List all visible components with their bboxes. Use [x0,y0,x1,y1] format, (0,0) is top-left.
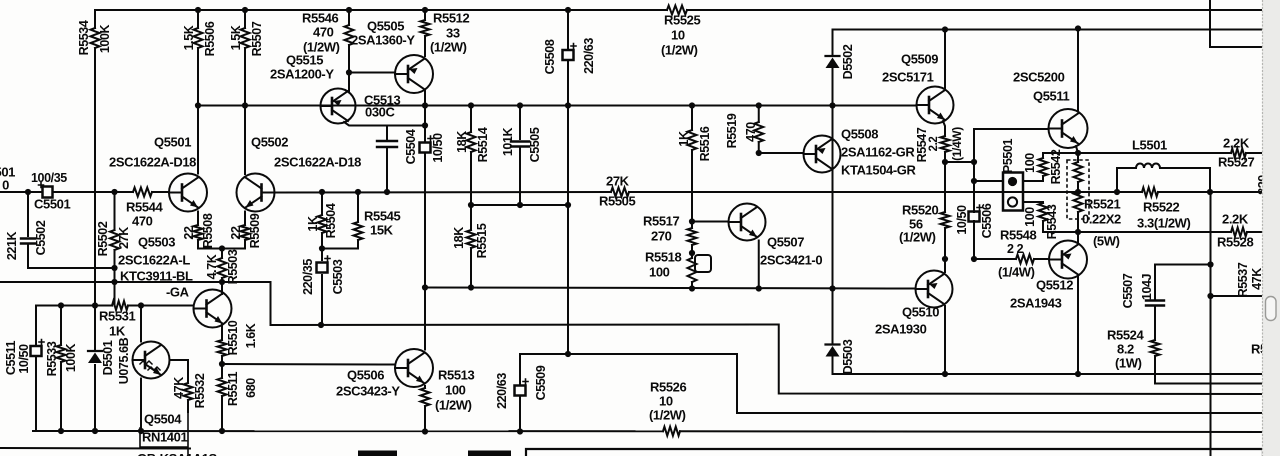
junction (692,221.5) [689,218,695,224]
wire R5542 branch x=1043 [1042,153,1044,158]
svg-text:Q5502: Q5502 [251,134,288,149]
junction (945,29.5) [942,26,948,32]
junction (1078,232) [1075,229,1081,235]
wire C5502 branch x=28 [27,192,29,236]
resistor R5511 [218,378,227,396]
junction (349,72.5) [346,69,352,75]
resistor R5512 [421,20,430,36]
resistor R5545 [354,222,363,240]
svg-text:R5547: R5547 [915,127,929,162]
svg-text:R5510: R5510 [226,320,240,355]
wire C5511 branch x=36 [35,306,37,347]
svg-text:R5504: R5504 [324,203,338,238]
svg-text:2SA1943: 2SA1943 [1010,295,1062,310]
svg-text:C5511: C5511 [4,340,18,375]
svg-text:1K: 1K [109,323,126,338]
svg-text:8.2: 8.2 [1117,341,1134,356]
svg-text:R5528: R5528 [1217,234,1253,249]
svg-text:221K: 221K [5,231,19,260]
svg-text:R5522: R5522 [1143,199,1179,214]
junction (1117,192) [1114,189,1120,195]
wire Q5507 emitter x=758.75 [758,241,760,289]
wire Q5510 emitter [944,306,946,374]
junction (358,192) [355,189,361,195]
transistor Q5510 [916,271,953,308]
svg-text:2SC5200: 2SC5200 [1013,69,1065,84]
junction (322,192) [319,189,325,195]
capacitor C5501 (electrolytic, inline) [43,187,53,198]
junction (1078,374) [1075,371,1081,377]
junction (61,431) [58,428,64,434]
svg-text:R5503: R5503 [226,249,240,284]
wire cap C5513 branch x=387 [386,126,388,140]
scrollbar gutter [1262,0,1280,456]
svg-text:R5506: R5506 [203,21,217,56]
junction (945,259) [942,256,948,262]
wire C5509 branch x=520 [519,354,521,384]
svg-text:10/50: 10/50 [17,344,31,374]
svg-text:R5533: R5533 [45,341,59,376]
wire R5519 branch x=758.75 [758,106,760,123]
wire vertical x=198 (Q5501 collector branch) [197,10,199,28]
wire vertical x=974 with C5506 [973,129,975,212]
svg-text:104J: 104J [1140,273,1154,300]
svg-text:R5517: R5517 [643,213,679,228]
junction (245,10) [242,7,248,13]
svg-text:(1/4W): (1/4W) [998,264,1035,279]
transistor Q5509 [917,87,954,124]
junction (568,105.5) [565,102,571,108]
svg-text:2.2K: 2.2K [1222,211,1249,226]
resistor R5521 (0.22x2) with dashed box [1067,160,1089,219]
zener diode D5501 [88,350,102,352]
wire y=232 line with R5528 [1043,231,1231,233]
wire R5532 down [187,400,189,412]
svg-text:2SC3423-Y: 2SC3423-Y [336,383,400,398]
svg-text:GB-KSA1A1S: GB-KSA1A1S [137,451,218,456]
svg-text:-GA: -GA [166,284,190,299]
svg-text:R5525: R5525 [664,12,700,27]
svg-text:R5508: R5508 [201,213,215,248]
junction (692,253) [689,250,695,256]
wire vertical x=1210.5 (output node) [1210,192,1212,456]
junction (568,10) [565,7,571,13]
svg-text:R5545: R5545 [364,208,400,223]
wire Q5511 emitter to y=153 [1076,146,1078,153]
junction (520,431.5) [517,428,523,434]
svg-text:Q5504: Q5504 [144,411,182,426]
resistor R5513 [421,388,430,406]
svg-text:1K: 1K [306,216,320,232]
svg-text:C5506: C5506 [980,203,994,238]
junction (1078,153) [1075,150,1081,156]
svg-text:R5514: R5514 [476,127,490,162]
junction (425,431.5) [422,428,428,434]
junction (61,305.5) [58,302,64,308]
wire y=29.5 rail [833,29,1264,31]
resistor R5524 [1151,340,1160,356]
svg-text:(1/4W): (1/4W) [950,127,964,161]
junction (222,282) [219,279,225,285]
svg-text:R5548: R5548 [1000,227,1036,242]
svg-text:Q5510: Q5510 [902,304,939,319]
junction (471,105.5) [468,102,474,108]
svg-text:C5509: C5509 [534,365,548,400]
svg-text:0.22X2: 0.22X2 [1082,211,1121,226]
resistor R5520 [941,212,950,228]
junction (425,287.5) [422,284,428,290]
junction (471,287.5) [468,284,474,290]
wire Q5509 collector x=945 [944,30,946,89]
svg-text:10: 10 [659,393,673,408]
svg-text:100: 100 [1023,207,1037,227]
scrollbar thumb [1266,297,1277,321]
svg-text:R5511: R5511 [226,371,240,406]
svg-text:R5520: R5520 [902,202,938,217]
junction (114.5,268) [111,265,117,271]
resistor R5525 (inline on top rail) [667,6,687,15]
svg-text:R5502: R5502 [96,221,110,256]
resistor R5502 [110,230,119,250]
svg-text:0: 0 [2,177,9,192]
svg-text:100: 100 [445,382,466,397]
svg-text:(1/2W): (1/2W) [661,42,698,57]
svg-text:100: 100 [649,264,670,279]
svg-text:2SC5171: 2SC5171 [882,69,934,84]
wire y=268 to x=114.5 [28,267,115,269]
wire Q5511 collector x=1078 [1077,29,1079,111]
bus y=287.5 to Q5510 [425,288,916,289]
svg-text:R5546: R5546 [302,10,338,25]
resistor R5507 [241,28,250,48]
svg-text:C5501: C5501 [34,196,70,211]
resistor R5504 [318,215,327,233]
svg-text:2 2: 2 2 [1007,242,1024,256]
svg-text:47K: 47K [172,377,186,399]
svg-text:C5504: C5504 [404,129,418,164]
junction (141,305.5) [138,302,144,308]
capacitor C5506 [969,212,980,222]
svg-text:1.5K: 1.5K [182,25,196,50]
main signal line y=192 [0,191,42,193]
svg-text:C5508: C5508 [543,39,557,74]
transistor Q5512 [1049,241,1087,279]
wire bottom line y=448 left [0,447,190,450]
junction (520,105.5) [517,102,523,108]
junction (322,248.5) [319,245,325,251]
junction (945,374) [942,371,948,377]
wire vertical x=349 (R5546 branch) [348,10,350,25]
wire R5516 branch x=692 [691,106,693,131]
junction (568,354) [565,351,571,357]
svg-text:2SC3421-0: 2SC3421-0 [760,252,822,267]
svg-text:(1/2W): (1/2W) [649,407,686,422]
svg-text:D5501: D5501 [101,340,115,375]
svg-text:C5507: C5507 [1121,273,1135,308]
wire base rail y=105.5 to Q5509 [198,105,916,107]
svg-text:C5503: C5503 [331,259,345,294]
junction (692,105.5) [689,102,695,108]
transistor Q5507 [729,204,766,241]
resistor R5547 [941,136,950,152]
svg-text:R5526: R5526 [650,379,686,394]
junction (568,205) [565,202,571,208]
junction (198,105.5) [195,102,201,108]
svg-text:10/50: 10/50 [955,205,969,235]
capacitor C5509 [515,386,526,396]
resistor R5517 [688,228,697,245]
capacitor C5513 [377,141,397,147]
junction (222,364) [219,361,225,367]
ground/output bus y=431 bottom [33,430,663,432]
resistor R5548 [1016,255,1034,264]
resistor R5522 (inline on main line) [1142,188,1158,197]
junction (198,10) [195,7,201,13]
junction (141,431) [138,428,144,434]
capacitor C5507 [1146,301,1164,306]
junction (95,431) [92,428,98,434]
svg-text:Q5515: Q5515 [286,52,323,67]
wire vertical x=832.5 with diodes [832,30,834,56]
transistor Q5502 [237,174,275,212]
svg-text:KTC3911-BL: KTC3911-BL [120,268,193,283]
svg-text:U075.6B: U075.6B [117,337,131,384]
wire Q5505 base line y=72.5 [349,72,395,74]
svg-text:101K: 101K [501,127,515,156]
wire vertical x=471 (R5514/R5515 branch) [470,106,472,133]
svg-text:470: 470 [744,122,758,142]
resistor R5542 [1039,158,1048,176]
wire R5533 branch x=61 [60,306,62,346]
wire y=374 line [833,373,1264,375]
svg-text:R5542: R5542 [1049,149,1063,184]
svg-text:2.2K: 2.2K [1223,135,1250,150]
junction (832.5,288.5) [829,285,835,291]
wire output line y=153 right [1043,152,1231,154]
svg-text:KTA1504-GR: KTA1504-GR [841,162,917,177]
transistor Q5506 [395,349,433,387]
capacitor C5508 [563,50,574,60]
wire y=354 step line [520,354,1263,413]
wire Q5515 emitter to x=425 y=125.5 [344,122,425,126]
wire R5548 line y=259 [974,258,1016,260]
wire vertical x=425 upper (Q5505 collector) [424,10,426,20]
resistor R5534 [91,28,100,48]
svg-text:(1/2W): (1/2W) [435,397,472,412]
connector P5501 [1003,173,1023,211]
svg-text:R5512: R5512 [433,10,469,25]
wire Q5511 base y=129 [974,128,1049,130]
capacitor C5503 (electrolytic) [317,263,328,273]
svg-text:R5519: R5519 [725,113,739,148]
junction (832.5,105.5) [829,102,835,108]
junction (114.5,192) [111,189,117,195]
svg-text:18K: 18K [452,227,466,249]
wire top-right corner x=1210 [1210,0,1263,47]
junction (1078,192) [1075,189,1081,195]
svg-text:27K: 27K [117,227,131,249]
junction (974,162) [971,159,977,165]
svg-text:R5516: R5516 [698,126,712,161]
svg-text:2SA1360-Y: 2SA1360-Y [351,32,415,47]
svg-text:3.3(1/2W): 3.3(1/2W) [1137,215,1191,230]
resistor R5509 [241,225,250,240]
Q5504 label box [140,412,188,456]
junction (425,10) [422,7,428,13]
junction (425,105.5) [422,102,428,108]
wire Q5504 emitter [140,379,142,432]
svg-text:R5527: R5527 [1218,154,1254,169]
junction (1210.5,264.5) [1207,261,1213,267]
svg-text:R5532: R5532 [193,373,207,408]
junction (1210,192) [1207,189,1213,195]
svg-text:470: 470 [313,24,334,39]
junction (945,162) [942,159,948,165]
svg-text:Q5506: Q5506 [347,367,384,382]
junction (425,125.5) [422,122,428,128]
wire C5507/R5524 branch x=1155 [1154,265,1156,300]
wire Q5504 base to R5532 [170,360,189,383]
transistor Q5511 [1049,109,1088,148]
svg-text:220/35: 220/35 [301,259,315,295]
svg-text:R5543: R5543 [1045,204,1059,239]
junction (974,181) [971,178,977,184]
svg-text:R5515: R5515 [475,223,489,258]
transistor Q5508 [804,136,841,173]
transistor Q5504 (RN1401 digital) [133,342,170,379]
svg-text:4.7K: 4.7K [205,254,219,279]
junction (387,192) [384,189,390,195]
svg-text:R5537: R5537 [1236,262,1250,297]
svg-text:Q5512: Q5512 [1036,277,1073,292]
resistor R5519 [754,122,763,142]
diode D5503 [826,343,840,345]
svg-text:470: 470 [132,213,153,228]
svg-text:100/35: 100/35 [31,171,67,185]
junction (28,192) [25,189,31,195]
svg-text:2SC1622A-D18: 2SC1622A-D18 [274,154,361,169]
svg-text:Q5505: Q5505 [367,18,404,33]
wire R5504 branch x=322 [321,192,323,215]
wire vertical x=95 from rail to lower nets [94,10,96,28]
wire Q5503 emitter chain x=222 [221,324,223,340]
main line 2 y=282 and step [0,282,1263,394]
svg-text:R5524: R5524 [1107,327,1144,342]
junction (95,305.5) [92,302,98,308]
svg-text:15K: 15K [370,222,394,237]
svg-text:(1/2W): (1/2W) [899,229,936,244]
resistor R5527 (inline) [1231,149,1246,158]
junction (692,288.5) [689,285,695,291]
wire Q5507 base y=221.5 [692,221,729,223]
transistor Q5501 [169,174,207,212]
junction (321,325) [318,322,324,328]
svg-text:(1W): (1W) [1115,355,1142,370]
junction (520,205) [517,202,523,208]
wire R5545 branch x=358 [357,192,359,222]
lower section bus bars [358,451,397,456]
junction (758.75,288.5) [756,285,762,291]
capacitor C5511 [31,346,42,356]
resistor R5515 [467,230,476,248]
resistor R5503 [218,258,227,278]
R5518 trim box [695,255,711,272]
svg-text:100K: 100K [64,343,78,372]
svg-text:L5501: L5501 [1132,137,1167,152]
wire P5501 pin line y=181 [974,180,1003,182]
svg-text:D5503: D5503 [841,339,855,374]
resistor R5508 [194,225,203,240]
svg-text:270: 270 [651,228,672,243]
resistor R5505 (inline) [611,188,629,197]
resistor R5526 (inline) [663,427,680,436]
svg-text:2.2: 2.2 [928,137,940,152]
svg-text:100K: 100K [98,24,112,53]
svg-text:10: 10 [671,27,685,42]
resistor R5514 [467,132,476,152]
svg-text:1K: 1K [677,131,691,147]
wire top supply rail y=10 [95,9,667,11]
resistor R5532 [184,383,193,400]
svg-text:2SC1622A-L: 2SC1622A-L [118,252,190,267]
svg-text:R5513: R5513 [438,367,474,382]
wire Q5501 emitter + R5508 [197,212,199,226]
svg-text:680: 680 [244,378,258,398]
resistor R5543 [1039,203,1048,221]
wire R5503 branch x=222 [221,249,223,259]
wire bus y=205 [471,204,568,206]
junction (349,10) [346,7,352,13]
wire emitters join y=248.5 [198,248,245,250]
svg-text:R5509: R5509 [248,213,262,248]
transistor Q5503 [194,290,232,328]
svg-text:Q5508: Q5508 [841,126,878,141]
capacitor C5502 [21,239,35,244]
wire Q5509 emitter + R5547 [943,121,945,136]
wire Q5510 collector [944,259,946,272]
junction (974,259) [971,256,977,262]
wire C5503 branch x=322 down [321,249,323,261]
svg-text:030C: 030C [365,104,395,119]
svg-text:D5502: D5502 [841,44,855,79]
svg-text:2SA1930: 2SA1930 [875,321,927,336]
junction (471,205) [468,202,474,208]
wire Q5506 base line y=364 [222,363,395,366]
svg-text:R5534: R5534 [77,20,91,55]
wire vertical x=245 (Q5502 collector branch) [244,10,246,28]
svg-text:220/63: 220/63 [495,373,509,409]
svg-text:33: 33 [446,25,460,40]
wire vertical x=520 (C5505 branch) [519,106,521,140]
junction (758.75,153) [756,150,762,156]
svg-text:P5501: P5501 [1001,138,1015,173]
svg-text:220/63: 220/63 [582,38,596,74]
svg-text:2SA1162-GR: 2SA1162-GR [841,144,915,159]
wire Q5503 collector [221,282,223,294]
transistor Q5515 [321,89,356,124]
wire Q5508 base y=153 [759,152,804,154]
wire R5543 branch x=1043 [1024,201,1043,203]
resistor R5544 (inline) [133,188,152,197]
wire y=162 join [945,161,974,163]
wire Q5503 base line y=305.5 [36,305,112,307]
svg-text:10/50: 10/50 [431,133,445,163]
diode D5502 [826,55,840,57]
svg-text:22: 22 [182,226,196,240]
svg-text:R5531: R5531 [99,308,135,323]
inductor L5501 loop [1117,167,1136,169]
svg-text:1.5K: 1.5K [229,25,243,50]
